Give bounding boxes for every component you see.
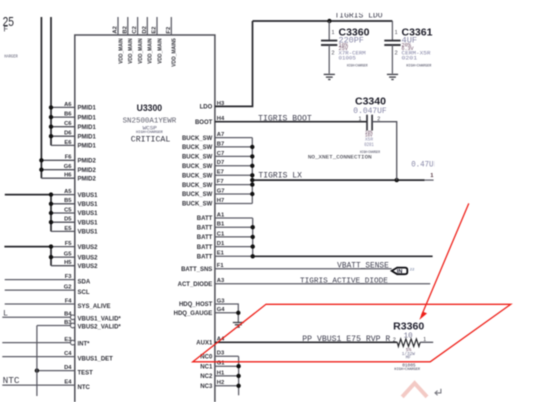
pin H7 BUCK_SW bbox=[182, 198, 252, 208]
ground C3361 bbox=[387, 74, 398, 79]
resistor R3360 bbox=[393, 322, 433, 372]
svg-text:H6: H6 bbox=[64, 173, 72, 179]
return mark bbox=[435, 389, 441, 395]
pin G1 NC1 bbox=[200, 361, 241, 371]
svg-text:2: 2 bbox=[393, 338, 396, 344]
svg-text:VBUS1_DET: VBUS1_DET bbox=[78, 356, 114, 362]
capacitor C3361 bbox=[384, 21, 432, 74]
svg-text:VBUS1: VBUS1 bbox=[78, 230, 99, 236]
svg-text:HARGER: HARGER bbox=[4, 55, 18, 59]
svg-text:F: F bbox=[3, 26, 8, 35]
svg-text:SDA: SDA bbox=[78, 279, 91, 285]
pin C5 VBUS1 bbox=[49, 207, 98, 217]
pin F5 VBUS2 bbox=[49, 241, 98, 251]
svg-text:C5: C5 bbox=[64, 207, 72, 213]
svg-text:BUCK_SW: BUCK_SW bbox=[182, 145, 213, 151]
svg-text:BATT: BATT bbox=[197, 235, 213, 241]
svg-text:NC3: NC3 bbox=[200, 384, 213, 390]
svg-text:C7: C7 bbox=[217, 151, 224, 157]
svg-text:PP VBUS1 E75 RVP R: PP VBUS1 E75 RVP R bbox=[302, 335, 390, 344]
svg-text:VBUS1: VBUS1 bbox=[78, 220, 99, 226]
node LDO/C3360 junction bbox=[327, 19, 331, 23]
svg-text:H5: H5 bbox=[64, 260, 72, 266]
pin stub A2 bbox=[113, 17, 125, 64]
net TIGRIS LDO (clipped at top) bbox=[300, 0, 537, 20]
pin C4 VBUS1_DET wire bbox=[2, 351, 113, 362]
svg-text:D3: D3 bbox=[217, 351, 225, 357]
svg-text:F5: F5 bbox=[65, 241, 73, 247]
svg-text:VBUS2_VALID*: VBUS2_VALID* bbox=[78, 325, 122, 331]
pin H3 LDO wire bbox=[200, 21, 253, 111]
svg-text:G3: G3 bbox=[217, 298, 226, 304]
pin A7 BUCK_SW bbox=[182, 132, 252, 142]
pin G7 BUCK_SW bbox=[182, 188, 255, 198]
svg-text:B4: B4 bbox=[64, 312, 72, 318]
pin G5 VBUS2 bbox=[49, 252, 98, 262]
svg-text:D1: D1 bbox=[217, 241, 225, 247]
svg-text:VBUS2: VBUS2 bbox=[78, 255, 99, 261]
svg-text:NTC: NTC bbox=[78, 385, 91, 391]
svg-text:PMID1: PMID1 bbox=[78, 144, 97, 150]
svg-text:G7: G7 bbox=[217, 188, 225, 194]
red annotation arrow bbox=[419, 203, 469, 320]
svg-text:2: 2 bbox=[395, 51, 398, 57]
svg-text:A1: A1 bbox=[217, 212, 225, 218]
svg-text:U3300: U3300 bbox=[137, 103, 163, 114]
svg-text:C1: C1 bbox=[217, 231, 225, 237]
svg-text:C6: C6 bbox=[64, 121, 72, 127]
capacitor C3340 bbox=[353, 96, 396, 181]
svg-text:BATT: BATT bbox=[197, 245, 213, 251]
svg-text:E3: E3 bbox=[64, 337, 72, 343]
svg-text:2: 2 bbox=[377, 117, 380, 123]
pin stub C2 bbox=[132, 17, 144, 64]
svg-text:PMID2: PMID2 bbox=[78, 159, 97, 165]
svg-text:TEST: TEST bbox=[78, 370, 94, 376]
svg-text:E7: E7 bbox=[217, 170, 224, 176]
svg-text:VDD_MAIN: VDD_MAIN bbox=[138, 38, 144, 63]
svg-text:HDQ_GAUGE: HDQ_GAUGE bbox=[174, 311, 213, 317]
svg-text:LDO: LDO bbox=[200, 105, 213, 111]
svg-text:VDD_MAIN: VDD_MAIN bbox=[148, 38, 154, 63]
svg-text:IN: IN bbox=[397, 269, 403, 275]
svg-text:HIGH=CHARGER: HIGH=CHARGER bbox=[406, 64, 432, 68]
svg-text:BUCK_SW: BUCK_SW bbox=[182, 174, 213, 180]
svg-text:TIGRIS LX: TIGRIS LX bbox=[258, 171, 302, 180]
svg-text:D4: D4 bbox=[64, 365, 72, 371]
svg-text:TIGRIS BOOT: TIGRIS BOOT bbox=[258, 114, 312, 123]
svg-text:HIGH=CHARGER: HIGH=CHARGER bbox=[394, 368, 421, 372]
pin D1 BATT bbox=[197, 241, 255, 251]
svg-text:VBUS2: VBUS2 bbox=[78, 264, 99, 270]
pin F1 BATT_SNS wire bbox=[181, 263, 392, 273]
pin F3 SDA wire bbox=[5, 274, 91, 285]
pin F4 SYS_ALIVE wire bbox=[5, 298, 111, 309]
svg-text:BATT_SNS: BATT_SNS bbox=[181, 267, 212, 273]
pin D5 VBUS1 bbox=[49, 217, 98, 227]
svg-text:A5: A5 bbox=[64, 189, 72, 195]
svg-text:BUCK_SW: BUCK_SW bbox=[182, 202, 213, 208]
svg-text:10: 10 bbox=[404, 333, 413, 341]
svg-text:BATT: BATT bbox=[197, 216, 213, 222]
svg-text:E4: E4 bbox=[64, 380, 72, 386]
svg-text:1: 1 bbox=[332, 30, 335, 36]
svg-text:VBUS1_VALID*: VBUS1_VALID* bbox=[78, 316, 122, 322]
pin E4 NTC wire bbox=[2, 380, 90, 391]
svg-text:AUX1: AUX1 bbox=[196, 341, 213, 347]
svg-text:0.047UF: 0.047UF bbox=[353, 107, 387, 116]
svg-text:H4: H4 bbox=[217, 116, 225, 122]
svg-text:VDD_MAIN: VDD_MAIN bbox=[118, 38, 124, 63]
pin B1 BATT bbox=[197, 222, 255, 232]
svg-text:A7: A7 bbox=[217, 132, 224, 138]
svg-text:VDD_MAIN: VDD_MAIN bbox=[157, 38, 163, 63]
svg-text:D6: D6 bbox=[64, 131, 72, 137]
svg-text:C4: C4 bbox=[64, 351, 72, 357]
svg-text:PMID1: PMID1 bbox=[78, 115, 97, 121]
svg-text:BATT: BATT bbox=[197, 255, 213, 261]
svg-text:A3: A3 bbox=[217, 278, 225, 284]
svg-text:ACT_DIODE: ACT_DIODE bbox=[178, 282, 213, 288]
svg-text:PMID1: PMID1 bbox=[78, 134, 97, 140]
svg-text:SCL: SCL bbox=[78, 290, 90, 296]
wire VALID/TEST vertical bbox=[36, 326, 38, 397]
svg-text:VBUS1: VBUS1 bbox=[78, 193, 99, 199]
off-page connector VBATT_SENSE bbox=[392, 268, 408, 276]
pin C7 BUCK_SW bbox=[182, 151, 255, 161]
svg-text:B7: B7 bbox=[217, 141, 224, 147]
svg-text:A2: A2 bbox=[113, 26, 119, 33]
pin H4 BOOT wire bbox=[195, 116, 367, 126]
svg-text:F3: F3 bbox=[65, 274, 73, 280]
svg-text:22: 22 bbox=[410, 269, 415, 273]
svg-text:1: 1 bbox=[430, 173, 433, 179]
wire TIGRIS LX out bbox=[250, 178, 434, 182]
svg-text:B1: B1 bbox=[217, 222, 225, 228]
svg-text:B5: B5 bbox=[64, 198, 72, 204]
svg-text:BOOT: BOOT bbox=[195, 120, 213, 126]
wire TIGRIS LDO horizontal bbox=[253, 20, 393, 22]
svg-text:BUCK_SW: BUCK_SW bbox=[182, 136, 213, 142]
svg-text:D2: D2 bbox=[142, 26, 148, 33]
svg-text:NC0: NC0 bbox=[200, 355, 213, 361]
svg-text:G5: G5 bbox=[64, 252, 73, 258]
svg-text:G4: G4 bbox=[217, 307, 226, 313]
svg-text:C2: C2 bbox=[132, 26, 138, 33]
svg-text:VDD_MAIN5: VDD_MAIN5 bbox=[172, 38, 178, 67]
svg-text:E5: E5 bbox=[64, 226, 72, 232]
svg-text:MF: MF bbox=[406, 356, 412, 360]
svg-text:C3340: C3340 bbox=[355, 96, 386, 108]
svg-text:PMID1: PMID1 bbox=[78, 106, 97, 112]
svg-text:01005: 01005 bbox=[339, 55, 357, 62]
op IC U3300 body bbox=[75, 35, 215, 402]
svg-text:B6: B6 bbox=[64, 112, 72, 118]
svg-text:B3: B3 bbox=[64, 320, 72, 326]
svg-text:E2: E2 bbox=[152, 27, 158, 34]
pin D7 BUCK_SW bbox=[182, 160, 255, 170]
pin stub B2 bbox=[122, 17, 134, 64]
svg-text:F2: F2 bbox=[166, 27, 172, 34]
wire PMID1 feed vertical bbox=[50, 17, 52, 145]
svg-text:F4: F4 bbox=[65, 298, 73, 304]
svg-text:NC2: NC2 bbox=[200, 374, 213, 380]
svg-text:2: 2 bbox=[332, 51, 335, 57]
svg-text:1: 1 bbox=[359, 117, 362, 123]
svg-text:BATT: BATT bbox=[197, 225, 213, 231]
pin A1 BATT bbox=[197, 212, 253, 222]
svg-text:R3360: R3360 bbox=[393, 322, 424, 333]
svg-text:H2: H2 bbox=[217, 380, 224, 386]
pin G3 HDQ_HOST wire bbox=[179, 298, 238, 322]
pin E1 BATT + VBATT wire out bbox=[197, 251, 433, 261]
pin E3 INT* wire with bubble bbox=[2, 337, 90, 348]
ground HDQ bbox=[233, 323, 244, 328]
svg-text:TIGRIS_ACTIVE_DIODE: TIGRIS_ACTIVE_DIODE bbox=[300, 277, 388, 285]
svg-text:PMID2: PMID2 bbox=[78, 176, 97, 182]
wire BATT bus vertical bbox=[252, 218, 254, 256]
svg-text:SN2500A1YEWR: SN2500A1YEWR bbox=[123, 117, 177, 125]
pin H1 NC2 bbox=[200, 370, 241, 380]
svg-text:VBUS2: VBUS2 bbox=[78, 245, 99, 251]
capacitor C3360 bbox=[321, 21, 370, 74]
svg-text:H7: H7 bbox=[217, 198, 224, 204]
pin stub E2 bbox=[152, 17, 164, 64]
pin G2 SCL wire bbox=[5, 285, 90, 296]
svg-text:BUCK_SW: BUCK_SW bbox=[182, 192, 213, 198]
wire BUCK_SW bus vertical bbox=[251, 138, 253, 204]
svg-text:F1: F1 bbox=[217, 263, 225, 269]
svg-text:BUCK_SW: BUCK_SW bbox=[182, 164, 213, 170]
pin B3 VBUS2_VALID* wire with bubble bbox=[37, 320, 121, 331]
pin A3 ACT_DIODE wire bbox=[178, 278, 431, 288]
pin E6 PMID1 bbox=[51, 140, 97, 150]
svg-text:H1: H1 bbox=[217, 370, 225, 376]
svg-text:VBUS1: VBUS1 bbox=[78, 202, 99, 208]
svg-text:PMID2: PMID2 bbox=[78, 168, 97, 174]
svg-text:D7: D7 bbox=[217, 160, 224, 166]
svg-text:1: 1 bbox=[395, 30, 398, 36]
pin G4 HDQ_GAUGE wire bbox=[174, 307, 241, 317]
svg-text:VDD_MAIN: VDD_MAIN bbox=[128, 38, 134, 63]
pin C1 BATT bbox=[197, 231, 255, 241]
svg-text:BUCK_SW: BUCK_SW bbox=[182, 183, 213, 189]
svg-text:VBUS1: VBUS1 bbox=[78, 211, 99, 217]
pin B5 VBUS1 bbox=[49, 198, 98, 208]
ground C3360 bbox=[324, 74, 335, 79]
pin H6 PMID2 bbox=[41, 173, 96, 183]
pin D3 NC0 bbox=[200, 351, 238, 361]
svg-text:F7: F7 bbox=[217, 179, 224, 185]
pin B4 VBUS1_VALID* wire with bubble bbox=[2, 312, 121, 323]
pin H5 VBUS2 bbox=[51, 260, 98, 270]
svg-text:B2: B2 bbox=[122, 26, 128, 33]
pin E7 BUCK_SW bbox=[182, 170, 255, 180]
wire VBUS2 bus vertical bbox=[50, 247, 52, 266]
svg-text:HIGH=CHARGER: HIGH=CHARGER bbox=[136, 131, 164, 135]
svg-text:HIGH=CHARGER: HIGH=CHARGER bbox=[347, 64, 368, 68]
red highlight parallelogram bbox=[193, 304, 511, 362]
svg-text:NTC: NTC bbox=[3, 376, 21, 386]
svg-text:H3: H3 bbox=[217, 101, 225, 107]
svg-text:G2: G2 bbox=[64, 285, 72, 291]
svg-text:E6: E6 bbox=[64, 140, 72, 146]
svg-text:BUCK_SW: BUCK_SW bbox=[182, 155, 213, 161]
svg-text:0201: 0201 bbox=[364, 142, 374, 148]
wire NC bus vertical bbox=[238, 356, 240, 395]
pin D4 TEST wire bbox=[35, 365, 93, 376]
pin C6 PMID1 bbox=[49, 121, 97, 131]
wire VBUS1 feed bbox=[5, 194, 51, 196]
svg-text:F6: F6 bbox=[65, 155, 73, 161]
pin H2 NC3 bbox=[200, 380, 241, 390]
pin G6 PMID2 bbox=[39, 164, 96, 174]
svg-text:PMID1: PMID1 bbox=[78, 125, 97, 131]
svg-text:0201: 0201 bbox=[402, 55, 418, 62]
pin D6 PMID1 bbox=[49, 131, 97, 141]
wire PMID2 feed vertical bbox=[40, 17, 42, 178]
wire VBUS2 feed bbox=[4, 246, 51, 248]
svg-text:SYS_ALIVE: SYS_ALIVE bbox=[78, 304, 111, 310]
svg-text:INT*: INT* bbox=[78, 342, 91, 348]
svg-text:VBATT_SENSE: VBATT_SENSE bbox=[337, 262, 389, 270]
pin stub F2 bbox=[166, 17, 178, 67]
svg-text:1: 1 bbox=[423, 337, 426, 343]
svg-text:CRITICAL: CRITICAL bbox=[131, 136, 171, 145]
pin F6 PMID2 bbox=[39, 155, 96, 165]
highlight chevron (faded) bbox=[402, 383, 427, 397]
pin B7 BUCK_SW bbox=[182, 141, 255, 151]
svg-text:NC1: NC1 bbox=[200, 364, 213, 370]
wire VBUS1 bus vertical bbox=[50, 195, 52, 232]
pin A4 AUX1 wire bbox=[196, 337, 397, 347]
svg-text:NO_XNET_CONNECTION: NO_XNET_CONNECTION bbox=[308, 154, 372, 161]
pin A6 PMID1 bbox=[49, 102, 97, 112]
value 0.47UH (clipped) bbox=[411, 158, 446, 170]
pin E5 VBUS1 bbox=[51, 226, 98, 236]
pin B6 PMID1 bbox=[49, 112, 97, 122]
pin stub D2 bbox=[142, 17, 154, 64]
svg-text:G6: G6 bbox=[64, 164, 73, 170]
pin F7 BUCK_SW bbox=[182, 179, 255, 189]
svg-text:HDQ_HOST: HDQ_HOST bbox=[179, 302, 213, 308]
pin A5 VBUS1 bbox=[49, 189, 98, 199]
svg-text:A6: A6 bbox=[64, 102, 72, 108]
svg-text:E1: E1 bbox=[217, 251, 225, 257]
svg-text:D5: D5 bbox=[64, 217, 72, 223]
